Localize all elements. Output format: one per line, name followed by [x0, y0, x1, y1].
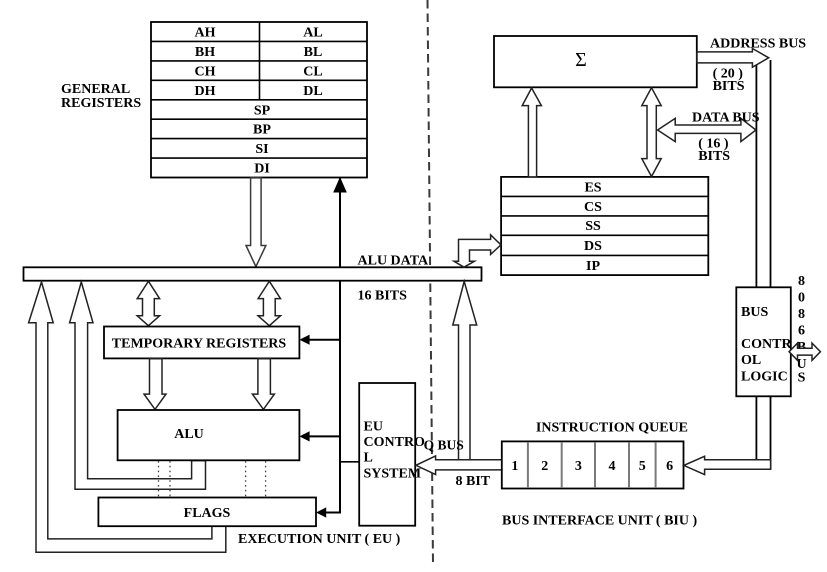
svg-text:AH: AH: [195, 26, 216, 41]
svg-text:CL: CL: [303, 64, 322, 79]
svg-text:Σ: Σ: [575, 49, 587, 71]
svg-text:SI: SI: [255, 142, 268, 157]
arrow: general registers to ALU-data bus (hollow down): [246, 178, 266, 267]
arrow: 8086 bus bidirectional (small hollow double horizontal): [789, 343, 820, 360]
svg-text:DI: DI: [254, 162, 270, 177]
svg-text:BH: BH: [195, 45, 215, 60]
arrow: Q bus to EU control system (hollow left): [416, 456, 502, 475]
svg-text:DATA BUS: DATA BUS: [692, 111, 760, 126]
arrow: ALU to ALU-data bus via lower bus (hollow elbow up): [70, 282, 206, 489]
svg-text:SP: SP: [254, 103, 271, 118]
svg-text:8 BIT: 8 BIT: [456, 474, 491, 489]
label GENERAL REGISTERS: [61, 82, 141, 111]
svg-text:1: 1: [511, 459, 518, 474]
svg-text:8: 8: [798, 274, 805, 289]
svg-text:BUS INTERFACE UNIT ( BIU ): BUS INTERFACE UNIT ( BIU ): [502, 514, 697, 529]
arrow: FLAGS to ALU-data bus via bottom bus (hollow elbow up): [29, 282, 226, 552]
svg-text:L: L: [364, 451, 373, 466]
general registers table: [151, 22, 367, 178]
svg-text:SS: SS: [585, 219, 601, 234]
bus: 8086 bus vertical lines (upper segment): [756, 60, 770, 287]
arrow: ALU-data bus to temporary registers, left (hollow double vertical): [137, 281, 159, 326]
arrow: 8086 bus to instruction queue (hollow left): [684, 456, 771, 474]
svg-text:CONTR: CONTR: [741, 337, 792, 352]
label BITS (data bus): [698, 149, 730, 164]
label ( 16 ): [698, 137, 729, 152]
arrow: data bus (hollow double horizontal): [658, 118, 756, 141]
svg-text:CS: CS: [584, 200, 602, 215]
svg-text:FLAGS: FLAGS: [184, 506, 231, 521]
svg-text:BUS: BUS: [741, 305, 768, 320]
label EU CONTROL SYSTEM: [364, 420, 426, 482]
svg-text:DH: DH: [195, 84, 216, 99]
svg-text:16 BITS: 16 BITS: [358, 289, 408, 304]
wire: EU internal bus with arrows to registers, temp registers, ALU, flags: [299, 177, 359, 518]
svg-text:GENERAL: GENERAL: [61, 82, 130, 97]
label BITS (address bus): [713, 79, 745, 94]
svg-text:BP: BP: [253, 123, 271, 138]
bus: ALU data bus bar: [24, 267, 482, 280]
FLAGS box: [98, 498, 316, 527]
svg-text:DL: DL: [303, 84, 322, 99]
wire: dashed EU/BIU divider: [428, 0, 434, 563]
svg-text:BL: BL: [304, 45, 323, 60]
svg-text:TEMPORARY REGISTERS: TEMPORARY REGISTERS: [112, 337, 287, 352]
svg-text:INSTRUCTION QUEUE: INSTRUCTION QUEUE: [536, 421, 688, 436]
arrow: sigma and segment registers (hollow double vertical): [642, 88, 661, 177]
svg-text:5: 5: [639, 459, 646, 474]
svg-text:Q BUS: Q BUS: [424, 438, 464, 453]
label 16 BITS: [358, 289, 408, 304]
temporary registers box: [104, 327, 299, 359]
svg-text:ALU: ALU: [174, 427, 204, 442]
svg-text:LOGIC: LOGIC: [741, 369, 788, 384]
svg-text:ALU DATA: ALU DATA: [358, 254, 430, 269]
EU control system box: [359, 383, 415, 526]
label 8086 BUS (vertical): [796, 274, 806, 386]
instruction queue box: [502, 441, 684, 488]
label BUS INTERFACE UNIT ( BIU ): [502, 514, 697, 529]
sigma adder box: [494, 36, 697, 87]
svg-text:8: 8: [798, 307, 805, 322]
ALU box: [118, 410, 300, 460]
arrow: temporary registers to ALU, right (hollow down): [252, 359, 274, 410]
label Q BUS: [424, 438, 464, 453]
svg-text:OL: OL: [741, 353, 761, 368]
label 8 BIT: [456, 474, 491, 489]
svg-text:CONTRO: CONTRO: [364, 435, 426, 450]
svg-text:CH: CH: [195, 64, 216, 79]
segment registers box (ES CS SS DS IP): [501, 177, 708, 275]
label BUS CONTROL LOGIC: [741, 305, 792, 384]
svg-text:2: 2: [541, 459, 548, 474]
svg-text:S: S: [798, 371, 806, 386]
svg-text:SYSTEM: SYSTEM: [364, 467, 422, 482]
svg-text:AL: AL: [303, 26, 322, 41]
svg-text:ES: ES: [584, 180, 601, 195]
svg-text:3: 3: [575, 459, 582, 474]
svg-text:DS: DS: [584, 239, 602, 254]
svg-text:REGISTERS: REGISTERS: [61, 96, 141, 111]
label ADDRESS BUS: [710, 37, 806, 52]
svg-text:0: 0: [798, 291, 805, 306]
svg-text:BITS: BITS: [698, 149, 730, 164]
arrow: temporary registers to ALU, left (hollow down): [144, 359, 166, 410]
svg-text:ADDRESS BUS: ADDRESS BUS: [710, 37, 806, 52]
svg-text:EU: EU: [364, 420, 383, 435]
svg-text:6: 6: [798, 324, 805, 339]
arrow: ALU-data bus to segment registers DS row (hollow elbow right): [454, 235, 501, 267]
arrow: ALU-data bus to temporary registers, right (hollow double vertical): [258, 281, 280, 326]
label EXECUTION UNIT ( EU ): [238, 532, 401, 547]
label ( 20 ): [713, 67, 744, 82]
label DATA BUS: [692, 111, 760, 126]
arrow: Q bus riser to ALU-data bus (hollow up): [453, 281, 477, 459]
svg-text:6: 6: [666, 459, 673, 474]
arrow: segment registers to sigma (hollow up): [522, 88, 541, 177]
wires: ALU to FLAGS dotted status lines: [159, 461, 266, 497]
bus: 8086 bus vertical lines (lower segment): [756, 396, 770, 469]
svg-text:IP: IP: [586, 259, 600, 274]
svg-text:EXECUTION UNIT ( EU ): EXECUTION UNIT ( EU ): [238, 532, 401, 547]
svg-text:4: 4: [609, 459, 616, 474]
label ALU DATA: [358, 254, 430, 269]
svg-text:BITS: BITS: [713, 79, 745, 94]
bus control logic box: [736, 287, 791, 396]
label INSTRUCTION QUEUE: [536, 421, 688, 436]
arrow: address bus (hollow right): [697, 49, 769, 68]
